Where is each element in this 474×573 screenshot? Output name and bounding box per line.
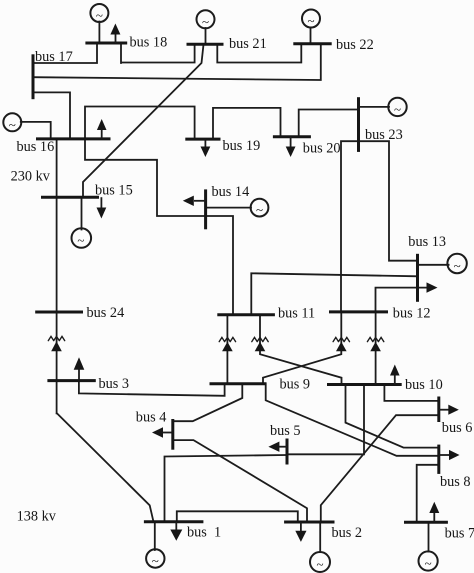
svg-text:bus 19: bus 19 xyxy=(223,138,261,154)
svg-text:bus 15: bus 15 xyxy=(95,183,133,199)
svg-text:bus 8: bus 8 xyxy=(440,474,471,490)
svg-text:bus 21: bus 21 xyxy=(229,36,267,52)
svg-text:bus 13: bus 13 xyxy=(408,234,446,250)
svg-text:bus 3: bus 3 xyxy=(99,376,130,392)
svg-text:bus 16: bus 16 xyxy=(17,139,55,155)
svg-text:bus 10: bus 10 xyxy=(405,377,443,393)
svg-text:~: ~ xyxy=(202,14,209,29)
svg-text:bus 23: bus 23 xyxy=(365,127,403,143)
svg-text:~: ~ xyxy=(9,117,16,132)
svg-text:bus 17: bus 17 xyxy=(35,49,73,65)
svg-text:bus 24: bus 24 xyxy=(87,305,125,321)
svg-text:bus 2: bus 2 xyxy=(332,525,363,541)
svg-text:bus 1: bus 1 xyxy=(187,525,221,541)
svg-text:~: ~ xyxy=(77,233,84,248)
svg-text:138 kv: 138 kv xyxy=(17,509,57,525)
svg-text:bus 22: bus 22 xyxy=(336,37,374,53)
svg-text:bus 5: bus 5 xyxy=(270,423,301,439)
svg-text:~: ~ xyxy=(256,202,263,217)
svg-text:bus 12: bus 12 xyxy=(393,306,431,322)
svg-text:~: ~ xyxy=(316,557,323,572)
svg-text:230 kv: 230 kv xyxy=(11,169,51,185)
svg-text:bus 6: bus 6 xyxy=(442,420,473,436)
svg-text:bus 9: bus 9 xyxy=(280,377,311,393)
svg-text:~: ~ xyxy=(454,258,461,273)
svg-text:bus 11: bus 11 xyxy=(278,306,315,322)
svg-text:bus 14: bus 14 xyxy=(212,184,250,200)
svg-text:~: ~ xyxy=(425,556,432,571)
svg-text:bus 7: bus 7 xyxy=(445,526,474,542)
svg-text:bus 20: bus 20 xyxy=(303,141,341,157)
svg-text:~: ~ xyxy=(394,101,401,116)
svg-text:bus 18: bus 18 xyxy=(130,35,168,51)
svg-text:~: ~ xyxy=(307,13,314,28)
svg-text:bus 4: bus 4 xyxy=(136,410,167,426)
svg-text:~: ~ xyxy=(152,553,159,568)
svg-text:~: ~ xyxy=(96,8,103,23)
